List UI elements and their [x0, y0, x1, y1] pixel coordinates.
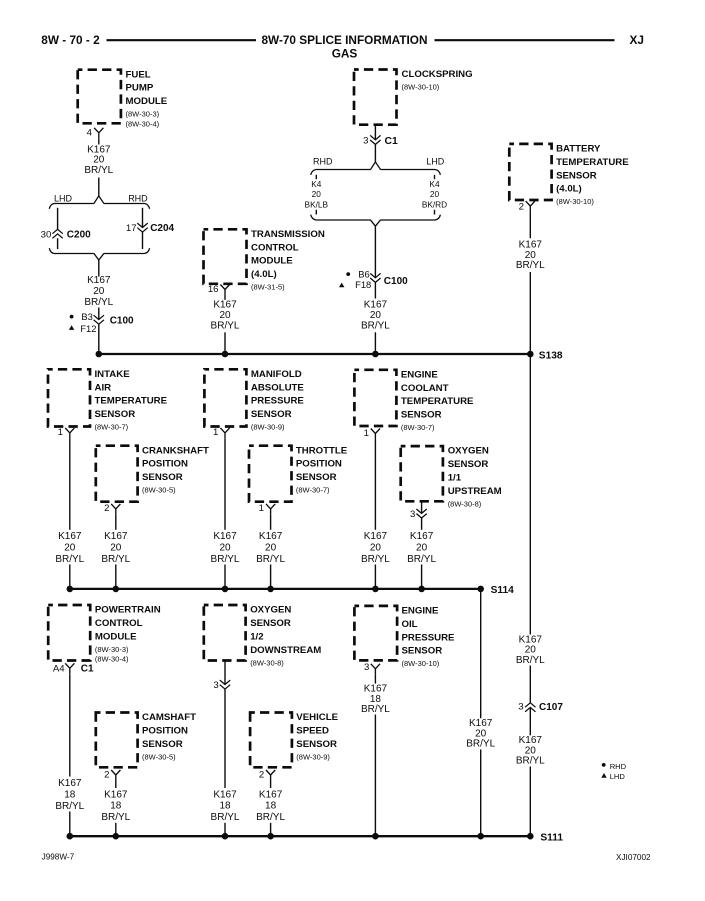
wire into C100 — [98, 308, 100, 320]
wire to splice S114 — [421, 565, 423, 589]
svg-text:S111: S111 — [540, 833, 563, 844]
svg-text:C100: C100 — [110, 316, 134, 327]
svg-text:PUMP: PUMP — [126, 83, 154, 94]
pin 1 of engine coolant temperature sensor — [364, 428, 369, 439]
connector Y at transmission control module — [220, 285, 229, 296]
legend marker RHD — [602, 762, 627, 771]
junction at transmission control module branch — [222, 351, 229, 358]
svg-text:K167: K167 — [87, 275, 111, 286]
svg-text:20: 20 — [370, 543, 382, 554]
wire to splice S114 — [69, 565, 71, 589]
svg-text:18: 18 — [110, 801, 122, 812]
svg-text:C100: C100 — [384, 276, 408, 287]
svg-text:ENGINE: ENGINE — [401, 369, 438, 380]
intake air temperature sensor — [48, 369, 168, 432]
svg-text:(8W-30-7): (8W-30-7) — [296, 486, 330, 495]
pin 17 at C204 — [126, 223, 137, 234]
svg-text:K167: K167 — [259, 531, 283, 542]
branch brace top (clockspring RHD/LHD split) — [311, 162, 441, 175]
svg-text:(8W-30-5): (8W-30-5) — [142, 486, 176, 495]
junction at camshaft position sensor branch — [113, 833, 120, 840]
header title 8W-70 SPLICE INFORMATION / GAS — [261, 33, 427, 60]
svg-text:UPSTREAM: UPSTREAM — [448, 486, 502, 497]
svg-text:(4.0L): (4.0L) — [556, 184, 582, 195]
svg-text:18: 18 — [265, 801, 277, 812]
svg-text:2: 2 — [519, 202, 524, 213]
pin 3 of engine oil pressure sensor — [364, 662, 369, 673]
svg-text:XJI07002: XJI07002 — [616, 853, 651, 862]
branch label LHD — [426, 156, 445, 166]
svg-text:C1: C1 — [81, 664, 94, 675]
pin 2 of battery temperature sensor — [519, 202, 524, 213]
header page number 8W-70-2 — [41, 33, 100, 47]
wire below join — [98, 260, 100, 277]
splice S111 bus line — [70, 835, 531, 837]
svg-text:TEMPERATURE: TEMPERATURE — [95, 396, 168, 407]
wire label K167 18 BR/YL — [55, 778, 84, 812]
connector label C100 — [110, 316, 134, 327]
svg-text:BR/YL: BR/YL — [407, 554, 436, 565]
branch brace bottom (clockspring join) — [311, 215, 441, 227]
pin 16 of transmission control module — [208, 284, 219, 295]
junction at S114 feed to S111 — [477, 586, 484, 593]
footer figure code XJI07002 — [616, 853, 651, 862]
wire stub RHD side lower — [315, 210, 317, 215]
connector label C200 — [67, 230, 91, 241]
svg-text:(8W-30-8): (8W-30-8) — [250, 658, 284, 667]
svg-text:MODULE: MODULE — [95, 631, 137, 642]
pin 3 of clockspring — [363, 136, 368, 147]
svg-text:(8W-30-7): (8W-30-7) — [401, 423, 435, 432]
wire label K4 20 BK/RD — [422, 179, 447, 210]
svg-text:20: 20 — [265, 543, 277, 554]
wire from engine oil pressure sensor — [374, 675, 376, 684]
svg-text:4: 4 — [87, 127, 93, 138]
connector Y at powertrain control module — [65, 663, 74, 674]
svg-text:BR/YL: BR/YL — [55, 801, 84, 812]
svg-text:PRESSURE: PRESSURE — [251, 396, 305, 407]
wire below C200 — [57, 238, 59, 249]
svg-text:LHD: LHD — [54, 193, 73, 203]
connector C100 symbol (clockspring circuit) — [370, 273, 380, 282]
svg-text:1: 1 — [58, 427, 63, 438]
junction at intake air temperature sensor branch — [67, 586, 74, 593]
oxygen sensor 1/1 upstream — [401, 446, 502, 509]
svg-text:BR/YL: BR/YL — [361, 321, 390, 332]
svg-text:SENSOR: SENSOR — [142, 472, 183, 483]
svg-text:BR/YL: BR/YL — [516, 756, 545, 767]
junction at oxygen sensor 1/1 branch — [418, 586, 425, 593]
svg-text:B3: B3 — [81, 311, 92, 322]
svg-text:TRANSMISSION: TRANSMISSION — [251, 229, 325, 240]
splice S138 bus line — [99, 353, 531, 355]
connector Y at camshaft position sensor — [111, 770, 120, 781]
junction at battery temperature sensor branch — [527, 351, 534, 358]
wire to RHD/LHD branch — [374, 144, 376, 162]
svg-text:POSITION: POSITION — [142, 459, 188, 470]
svg-text:(8W-30-3): (8W-30-3) — [95, 645, 129, 654]
svg-text:17: 17 — [126, 223, 137, 234]
pin 4 of fuel pump module — [87, 127, 93, 138]
wire from splice S138 down — [529, 354, 531, 635]
connector C1 symbol — [370, 135, 380, 144]
in-line connector symbol at oxygen sensor 1/2 — [220, 680, 230, 689]
svg-text:18: 18 — [64, 789, 76, 800]
svg-text:20: 20 — [219, 543, 231, 554]
svg-text:1: 1 — [213, 427, 218, 438]
svg-text:BR/YL: BR/YL — [256, 554, 285, 565]
svg-text:INTAKE: INTAKE — [95, 369, 131, 380]
wire below connector — [421, 518, 423, 530]
wire to splice S138 — [224, 332, 226, 354]
svg-text:SENSOR: SENSOR — [251, 409, 292, 420]
svg-text:BR/YL: BR/YL — [211, 554, 240, 565]
wire from intake air temperature sensor — [69, 439, 71, 530]
junction at crankshaft position sensor branch — [113, 586, 120, 593]
wire label K167 20 BR/YL — [211, 300, 240, 332]
svg-text:1/1: 1/1 — [448, 473, 462, 484]
connector label C107 — [539, 702, 563, 713]
connector C204 symbol — [137, 223, 147, 232]
wire from engine coolant temperature sensor — [374, 440, 376, 530]
wire to splice S111 — [529, 767, 531, 837]
svg-text:J998W-7: J998W-7 — [42, 853, 75, 862]
svg-text:8W-70 SPLICE INFORMATION: 8W-70 SPLICE INFORMATION — [261, 33, 427, 47]
svg-text:AIR: AIR — [95, 382, 112, 393]
wire below C107 — [529, 707, 531, 735]
svg-text:BR/YL: BR/YL — [361, 704, 390, 715]
svg-text:BR/YL: BR/YL — [211, 812, 240, 823]
wire from vehicle speed sensor — [270, 781, 272, 788]
wire to connector C107 — [529, 666, 531, 703]
wire below connector — [224, 689, 226, 788]
svg-text:DOWNSTREAM: DOWNSTREAM — [250, 645, 321, 656]
svg-text:BR/YL: BR/YL — [101, 554, 130, 565]
svg-text:K167: K167 — [58, 778, 82, 789]
wire label K4 20 BK/LB — [305, 179, 329, 210]
svg-text:(8W-30-3): (8W-30-3) — [126, 110, 160, 119]
svg-text:K167: K167 — [213, 531, 237, 542]
svg-text:GAS: GAS — [332, 46, 358, 60]
svg-text:SENSOR: SENSOR — [296, 739, 337, 750]
svg-text:POWERTRAIN: POWERTRAIN — [95, 605, 161, 616]
pin A4 of powertrain control module — [53, 664, 65, 675]
svg-text:3: 3 — [410, 509, 415, 520]
svg-text:K4: K4 — [429, 179, 440, 189]
wire label K167 18 BR/YL — [101, 789, 130, 823]
svg-text:K167: K167 — [259, 789, 283, 800]
svg-text:(8W-30-9): (8W-30-9) — [251, 423, 285, 432]
connector C100 symbol (fuel pump circuit) — [94, 315, 104, 324]
junction at S114 feed — [477, 833, 484, 840]
svg-text:20: 20 — [416, 543, 428, 554]
svg-text:MANIFOLD: MANIFOLD — [251, 369, 302, 380]
svg-text:K4: K4 — [311, 179, 322, 189]
svg-text:ENGINE: ENGINE — [402, 606, 439, 617]
wire to splice S111 — [224, 823, 226, 836]
wire stub RHD side — [315, 175, 317, 179]
svg-text:BR/YL: BR/YL — [361, 554, 390, 565]
svg-text:SPEED: SPEED — [296, 726, 329, 737]
svg-text:20: 20 — [110, 543, 122, 554]
svg-text:CONTROL: CONTROL — [251, 242, 299, 253]
svg-text:OXYGEN: OXYGEN — [250, 605, 291, 616]
engine oil pressure sensor — [354, 606, 455, 669]
svg-text:RHD: RHD — [313, 156, 333, 166]
svg-text:K167: K167 — [364, 531, 388, 542]
cavity B3 marker (RHD) — [70, 311, 93, 322]
wire to splice S114 — [374, 565, 376, 589]
svg-text:SENSOR: SENSOR — [250, 618, 291, 629]
svg-text:FUEL: FUEL — [126, 69, 151, 80]
svg-text:20: 20 — [430, 189, 440, 199]
svg-text:K167: K167 — [104, 531, 128, 542]
svg-text:K167: K167 — [519, 239, 543, 250]
svg-text:3: 3 — [518, 702, 523, 713]
svg-text:MODULE: MODULE — [126, 96, 168, 107]
wire label K167 20 BR/YL — [55, 531, 84, 565]
svg-text:K167: K167 — [58, 531, 82, 542]
connector Y at crankshaft position sensor — [111, 504, 120, 515]
svg-text:F12: F12 — [80, 323, 96, 334]
svg-text:K167: K167 — [364, 300, 388, 311]
svg-text:BR/YL: BR/YL — [256, 812, 285, 823]
svg-text:8W - 70 - 2: 8W - 70 - 2 — [41, 33, 100, 47]
svg-text:SENSOR: SENSOR — [402, 646, 443, 657]
manifold absolute pressure sensor — [204, 369, 304, 432]
powertrain control module — [48, 605, 161, 664]
svg-text:CLOCKSPRING: CLOCKSPRING — [402, 69, 473, 80]
svg-text:(8W-30-10): (8W-30-10) — [402, 659, 440, 668]
svg-text:C1: C1 — [385, 136, 399, 147]
pin 2 of crankshaft position sensor — [104, 503, 109, 514]
pin 2 of vehicle speed sensor — [259, 770, 264, 781]
wire to splice S111 — [270, 823, 272, 836]
svg-text:BR/YL: BR/YL — [516, 655, 545, 666]
wire to splice S114 — [224, 565, 226, 589]
svg-text:COOLANT: COOLANT — [401, 383, 449, 394]
svg-text:SENSOR: SENSOR — [448, 459, 489, 470]
cavity B6 marker (RHD) — [346, 269, 369, 280]
wire label K167 20 BR/YL — [361, 531, 390, 565]
connector Y at engine coolant temperature sensor — [371, 429, 380, 440]
svg-text:3: 3 — [364, 662, 369, 673]
junction at manifold absolute pressure sensor branch — [222, 586, 229, 593]
connector label C100 — [384, 276, 408, 287]
branch label RHD — [128, 193, 148, 203]
pin 1 of throttle position sensor — [259, 503, 264, 514]
svg-text:3: 3 — [363, 136, 368, 147]
svg-text:(8W-30-4): (8W-30-4) — [126, 119, 160, 128]
svg-text:(8W-30-7): (8W-30-7) — [95, 423, 129, 432]
wire RHD branch — [142, 208, 144, 228]
junction at engine oil pressure sensor branch — [372, 833, 379, 840]
wire label K167 20 BR/YL — [256, 531, 285, 565]
wire stub LHD side lower — [434, 210, 436, 215]
svg-text:PRESSURE: PRESSURE — [402, 632, 456, 643]
wire to splice S114 — [115, 565, 117, 589]
svg-text:20: 20 — [312, 189, 322, 199]
svg-text:BR/YL: BR/YL — [466, 739, 495, 750]
oxygen sensor 1/2 downstream — [204, 605, 322, 668]
wire from throttle position sensor — [270, 515, 272, 530]
junction at powertrain control module branch — [67, 833, 74, 840]
wire label K167 20 BR/YL — [466, 718, 495, 749]
wire label K167 20 BR/YL — [516, 239, 545, 271]
connector Y at vehicle speed sensor — [266, 770, 275, 781]
svg-text:CONTROL: CONTROL — [95, 618, 143, 629]
footer drawing number J998W-7 — [42, 853, 75, 862]
crankshaft position sensor — [96, 445, 209, 501]
wire from fuel pump module — [98, 139, 100, 145]
svg-text:(8W-30-4): (8W-30-4) — [95, 655, 129, 664]
pin 3 of oxygen sensor 1/2 — [213, 680, 218, 691]
wire to splice S111 — [374, 715, 376, 837]
pin 1 of manifold absolute pressure sensor — [213, 427, 218, 438]
svg-text:(8W-30-5): (8W-30-5) — [142, 752, 176, 761]
junction at throttle position sensor branch — [267, 586, 274, 593]
connector Y at manifold absolute pressure sensor — [220, 428, 229, 439]
connector C107 symbol — [525, 703, 535, 712]
svg-text:RHD: RHD — [128, 193, 148, 203]
svg-text:POSITION: POSITION — [296, 459, 342, 470]
throttle position sensor — [249, 445, 348, 501]
svg-text:TEMPERATURE: TEMPERATURE — [401, 396, 474, 407]
svg-text:S114: S114 — [491, 585, 515, 596]
wire below join to C100 — [374, 226, 376, 278]
wire label K167 20 BR/YL — [361, 300, 390, 332]
svg-text:20: 20 — [525, 250, 537, 261]
wire from battery temperature sensor — [529, 212, 531, 238]
pin 3 at C107 — [518, 702, 523, 713]
svg-text:20: 20 — [64, 543, 76, 554]
wire from camshaft position sensor — [115, 781, 117, 788]
wire label K167 20 BR/YL — [516, 735, 545, 766]
junction at clockspring branch — [372, 351, 379, 358]
wire LHD branch — [57, 208, 59, 230]
svg-text:LHD: LHD — [426, 156, 445, 166]
svg-text:BATTERY: BATTERY — [556, 144, 601, 155]
wire to splice S111 — [115, 823, 117, 836]
connector Y at fuel pump module — [94, 128, 103, 139]
junction at oxygen sensor 1/2 branch — [222, 833, 229, 840]
svg-text:CAMSHAFT: CAMSHAFT — [142, 712, 196, 723]
svg-text:VEHICLE: VEHICLE — [296, 712, 338, 723]
svg-text:ABSOLUTE: ABSOLUTE — [251, 382, 305, 393]
connector Y at intake air temperature sensor — [65, 428, 74, 439]
junction at C107 feed — [527, 833, 534, 840]
wire from crankshaft position sensor — [115, 515, 117, 530]
svg-text:BR/YL: BR/YL — [516, 260, 545, 271]
wire from C100 to splice S138 — [98, 324, 100, 354]
wire to splice S111 — [480, 750, 482, 837]
svg-text:(8W-30-8): (8W-30-8) — [448, 499, 482, 508]
header rule left — [107, 39, 257, 41]
svg-text:3: 3 — [213, 680, 218, 691]
wire to splice S111 — [69, 812, 71, 837]
branch label RHD — [313, 156, 333, 166]
svg-text:K167: K167 — [213, 300, 237, 311]
in-line connector symbol at oxygen sensor 1/1 — [416, 509, 426, 518]
svg-text:MODULE: MODULE — [251, 256, 293, 267]
svg-text:BK/RD: BK/RD — [422, 200, 447, 210]
wire label K167 20 BR/YL — [407, 531, 436, 565]
branch brace bottom (fuel pump join) — [49, 248, 149, 260]
svg-text:20: 20 — [370, 310, 382, 321]
svg-text:2: 2 — [104, 503, 109, 514]
svg-text:C107: C107 — [539, 702, 563, 713]
cavity F12 marker (LHD) — [69, 323, 97, 334]
header rule right — [435, 39, 615, 41]
svg-text:THROTTLE: THROTTLE — [296, 445, 348, 456]
svg-text:C200: C200 — [67, 230, 91, 241]
svg-text:(8W-30-10): (8W-30-10) — [556, 197, 594, 206]
wire label K167 18 BR/YL — [361, 684, 390, 715]
wire label K167 20 BR/YL — [516, 635, 545, 666]
wire from transmission control module — [224, 296, 226, 300]
wire below C100 — [374, 282, 376, 298]
svg-text:POSITION: POSITION — [142, 726, 188, 737]
cavity F18 marker (LHD) — [339, 279, 371, 290]
pin 2 of camshaft position sensor — [104, 770, 109, 781]
svg-text:A4: A4 — [53, 664, 65, 675]
pin 30 at C200 — [41, 229, 52, 240]
svg-text:SENSOR: SENSOR — [556, 170, 597, 181]
branch brace top (fuel pump LHD/RHD split) — [49, 196, 149, 209]
clockspring — [354, 69, 473, 125]
pin 1 of intake air temperature sensor — [58, 427, 63, 438]
junction at vehicle speed sensor branch — [267, 833, 274, 840]
svg-text:K167: K167 — [213, 789, 237, 800]
svg-text:(4.0L): (4.0L) — [251, 269, 277, 280]
connector C200 symbol — [52, 229, 62, 238]
junction at engine coolant temperature sensor branch — [372, 586, 379, 593]
svg-text:B6: B6 — [358, 269, 369, 280]
wire label K167 20 BR/YL — [84, 275, 113, 308]
wire from oxygen sensor 1/1 — [421, 501, 423, 513]
camshaft position sensor — [96, 712, 196, 767]
wire below C204 — [142, 232, 144, 249]
svg-text:OXYGEN: OXYGEN — [448, 446, 489, 457]
splice label S138 — [539, 350, 563, 361]
svg-text:RHD: RHD — [610, 762, 627, 771]
svg-text:S138: S138 — [539, 350, 563, 361]
svg-text:2: 2 — [259, 770, 264, 781]
svg-text:F18: F18 — [355, 279, 371, 290]
svg-text:(8W-31-5): (8W-31-5) — [251, 283, 285, 292]
svg-text:BR/YL: BR/YL — [101, 812, 130, 823]
svg-text:BR/YL: BR/YL — [55, 554, 84, 565]
svg-text:1: 1 — [364, 428, 369, 439]
connector label C204 — [150, 223, 174, 234]
svg-text:2: 2 — [104, 770, 109, 781]
legend marker LHD — [601, 772, 625, 781]
svg-text:BR/YL: BR/YL — [84, 297, 113, 308]
svg-text:1/2: 1/2 — [250, 631, 263, 642]
wire to splice S138 — [529, 272, 531, 354]
wire label K167 20 BR/YL — [211, 531, 240, 565]
svg-text:BR/YL: BR/YL — [211, 321, 240, 332]
wire label K167 18 BR/YL — [211, 789, 240, 823]
wire to LHD/RHD branch — [98, 178, 100, 197]
wire stub LHD side — [434, 175, 436, 179]
wire from splice S114 down — [480, 589, 482, 718]
connector Y at throttle position sensor — [266, 504, 275, 515]
wire from clockspring — [374, 125, 376, 140]
svg-text:18: 18 — [219, 801, 231, 812]
wire label K167 20 BR/YL — [101, 531, 130, 565]
pin 3 of oxygen sensor 1/1 — [410, 509, 415, 520]
